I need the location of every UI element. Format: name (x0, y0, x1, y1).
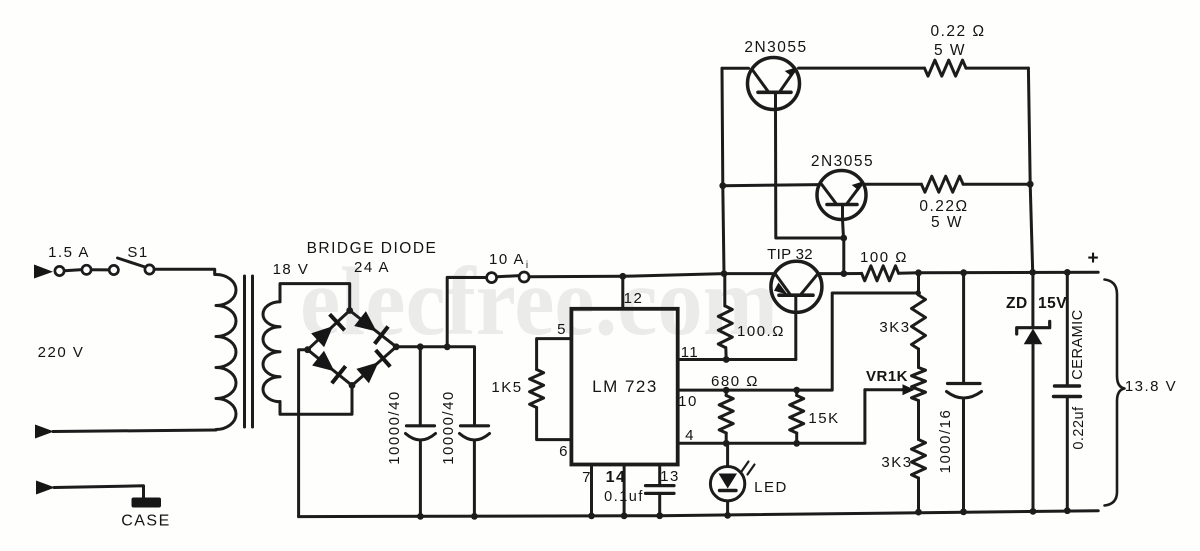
bridge diode D2 (354, 311, 388, 344)
wire pin 4 (678, 390, 865, 444)
bridge diamond wires (308, 311, 397, 386)
svg-text:12: 12 (624, 290, 644, 307)
svg-text:10000/40: 10000/40 (386, 390, 403, 465)
AC input terminal bottom (35, 425, 54, 439)
pin label 6 (559, 443, 569, 460)
svg-text:BRIDGE DIODE: BRIDGE DIODE (307, 240, 438, 257)
svg-text:2N3055: 2N3055 (811, 153, 874, 170)
junction gnd zener (1030, 508, 1037, 515)
label CERAMIC (1070, 309, 1086, 379)
wire bridge positive rail (396, 347, 474, 426)
wire 1K5 to pin 6 (537, 408, 572, 440)
pin label 13 (660, 468, 680, 485)
wire bottom input to transformer (53, 430, 216, 432)
junction gnd C1 (417, 513, 424, 520)
resistor 680ohm (719, 390, 733, 443)
wire rail TIP32 to 100ohm (844, 272, 862, 275)
svg-text:13.8 V: 13.8 V (1125, 378, 1177, 395)
wire TIP32 base (794, 312, 797, 360)
pin label 5 (557, 321, 567, 338)
junction out cap1000 (960, 269, 967, 276)
junction gnd cap1000 (960, 508, 967, 515)
svg-text:CASE: CASE (121, 513, 171, 530)
label 10 A (489, 251, 528, 271)
junction out zener (1029, 269, 1036, 276)
wire riser to 10A fuse (447, 277, 486, 346)
wire pin 7 (590, 465, 593, 516)
svg-text:11: 11 (681, 344, 700, 361)
label 10000/40 first (386, 390, 403, 465)
label 10000/40 second (440, 390, 457, 465)
label plus (1087, 248, 1098, 269)
label LM 723 (592, 377, 658, 396)
resistor R1 0.22ohm 5W (925, 60, 967, 76)
potentiometer VR1K (912, 368, 926, 401)
resistor 3K3 lower (912, 401, 926, 513)
wire R2 to right rail (963, 183, 1030, 186)
junction gnd ceramic (1064, 507, 1071, 514)
junction gnd pin13 (656, 512, 663, 519)
LED D5 (710, 443, 744, 515)
transistor Q2 2N3055 (817, 171, 866, 220)
svg-text:1.5 A: 1.5 A (48, 244, 90, 261)
label R1 0.22 (930, 23, 985, 40)
wire pin 10 (678, 293, 918, 390)
junction 680 top (723, 387, 730, 394)
svg-text:5 W: 5 W (931, 214, 963, 231)
label R2 0.22 (919, 198, 968, 215)
label 2N3055 Q1 (744, 39, 807, 56)
junction pin10 divider (915, 290, 921, 296)
junction gnd C2 (471, 513, 478, 520)
junction out 3K3 (915, 269, 922, 276)
junction Q2 emitter rail (1027, 181, 1034, 188)
svg-text:3K3: 3K3 (881, 454, 912, 471)
junction gnd pin14 (621, 512, 628, 519)
bridge diode D3 (312, 351, 346, 384)
junction 680 bottom (723, 440, 730, 447)
wire Q2 base drop (843, 220, 844, 239)
pin label 12 (624, 290, 644, 307)
wire base link (776, 109, 844, 274)
label CASE (121, 513, 171, 530)
svg-text:15K: 15K (808, 410, 839, 427)
svg-text:220 V: 220 V (38, 344, 85, 361)
label LED (754, 479, 788, 496)
svg-text:1000/16: 1000/16 (937, 409, 954, 474)
label TIP 32 (767, 246, 813, 263)
svg-text:100.Ω: 100.Ω (737, 323, 785, 340)
pin label 7 (582, 469, 592, 486)
junction gnd 3K3 (915, 509, 922, 516)
wire Q1 collector (722, 67, 749, 70)
capacitor C2 10000/40 (460, 426, 490, 517)
resistor R2 0.22ohm 5W (921, 176, 963, 192)
wire secondary top (280, 284, 350, 311)
resistor 3K3 upper (912, 273, 926, 368)
fuse F2 10A (487, 272, 529, 283)
junction 100ohm pin11 (723, 356, 730, 363)
svg-text:ZD: ZD (1006, 295, 1028, 312)
VR1K wiper arrow (865, 384, 915, 395)
wire pin 14 (623, 465, 626, 516)
label 3K3 lower (881, 454, 912, 471)
wire secondary bottom (280, 385, 352, 414)
wire pin 13 top (658, 465, 661, 486)
capacitor 0.1uf (646, 486, 675, 516)
svg-text:i: i (526, 260, 528, 271)
svg-text:10 A: 10 A (489, 251, 525, 268)
label 680 ohm (711, 373, 759, 390)
label 2N3055 Q2 (811, 153, 874, 170)
wire Q1 emitter lead (799, 67, 925, 70)
resistor 1K5 (530, 370, 544, 408)
svg-text:15V: 15V (1038, 295, 1067, 312)
junction gnd pin7 (588, 513, 595, 520)
label R1 5W (934, 42, 966, 59)
label VR1K (866, 368, 908, 385)
label ZD 15V (1006, 295, 1067, 312)
junction base-net rail (840, 270, 847, 277)
junction 15K bottom (793, 440, 800, 447)
svg-text:+: + (1087, 248, 1098, 269)
svg-text:LM 723: LM 723 (592, 377, 658, 396)
label 1.5 A (48, 244, 90, 261)
junction pin12 rail (619, 273, 626, 280)
svg-text:18 V: 18 V (273, 261, 310, 278)
capacitor C1 10000/40 (406, 426, 436, 517)
svg-text:0.22uf: 0.22uf (1071, 406, 1087, 450)
junction collector riser rail (721, 270, 728, 277)
label 18 V (273, 261, 310, 278)
transistor Q3 TIP32 (771, 261, 822, 312)
label 100 ohm horizontal (860, 249, 908, 266)
svg-text:0.22 Ω: 0.22 Ω (930, 23, 985, 40)
transformer core (245, 276, 253, 427)
pin label 11 (681, 344, 700, 361)
svg-text:24 A: 24 A (354, 259, 390, 276)
label BRIDGE DIODE (307, 240, 438, 257)
resistor 100ohm horizontal (862, 266, 899, 281)
svg-text:VR1K: VR1K (866, 368, 908, 385)
label 13.8 V (1125, 378, 1177, 395)
wire pin 12 (621, 276, 624, 309)
transistor Q1 2N3055 (748, 58, 800, 110)
chassis CASE symbol (132, 498, 162, 508)
svg-text:LED: LED (754, 479, 788, 496)
label 100 ohm vertical (737, 323, 785, 340)
wire case (54, 486, 144, 499)
label 3K3 upper (879, 319, 910, 336)
wire pin 11 (678, 358, 796, 361)
svg-text:13: 13 (660, 468, 680, 485)
label R2 5W (931, 214, 963, 231)
transformer T1 secondary (263, 302, 280, 402)
IC U1 LM723 box (571, 309, 677, 465)
label 220 V (38, 344, 85, 361)
svg-text:7: 7 (582, 469, 592, 486)
pin label 14 (606, 469, 627, 486)
svg-text:0.22Ω: 0.22Ω (919, 198, 968, 215)
bridge corner junctions (304, 307, 399, 389)
capacitor 1000/16 (947, 273, 982, 512)
svg-text:10000/40: 10000/40 (440, 390, 457, 465)
junction Q2 collector riser (719, 182, 726, 189)
label 0.22uf (1071, 406, 1087, 450)
label 0.1uf (604, 489, 644, 505)
svg-text:S1: S1 (127, 244, 148, 261)
wire switch to transformer (154, 269, 215, 274)
wire Q2 emitter lead (865, 183, 922, 186)
zener diode ZD 15V (1017, 272, 1050, 511)
label 1000/16 (937, 409, 954, 474)
AC input terminal top (34, 265, 53, 279)
wire V+ rail to TIP32 (529, 274, 772, 277)
junction riser (444, 343, 451, 350)
label 15K (808, 410, 839, 427)
wire bridge negative to ground rail (299, 350, 308, 517)
svg-text:1K5: 1K5 (491, 379, 522, 396)
wire R1 to right rail (966, 67, 1028, 70)
wire cap C1 top lead (419, 347, 422, 426)
right rail (1028, 68, 1032, 272)
wire Q2 collector (723, 185, 819, 186)
svg-text:5 W: 5 W (934, 42, 966, 59)
wire collector riser (722, 68, 724, 273)
watermark (300, 248, 778, 356)
wire output rail (899, 271, 1099, 275)
svg-text:10: 10 (678, 393, 698, 410)
ground rail (299, 511, 1099, 517)
fuse F1 1.5A (55, 265, 119, 275)
pin label 10 (678, 393, 698, 410)
svg-text:100 Ω: 100 Ω (860, 249, 908, 266)
svg-text:680 Ω: 680 Ω (711, 373, 759, 390)
svg-text:4: 4 (685, 427, 695, 444)
transformer T1 primary (216, 275, 236, 430)
svg-text:CERAMIC: CERAMIC (1070, 309, 1086, 379)
resistor 100ohm vertical (718, 274, 732, 360)
bridge diode D4 (356, 350, 390, 383)
svg-text:14: 14 (606, 469, 627, 486)
svg-text:2N3055: 2N3055 (744, 39, 807, 56)
junction base link (840, 235, 847, 242)
CASE terminal (36, 481, 55, 495)
label 1K5 (491, 379, 522, 396)
junction 15K top (793, 387, 800, 394)
svg-text:0.1uf: 0.1uf (604, 489, 644, 505)
wire TIP32 collector to rail (820, 272, 844, 275)
wire pin 5 (537, 339, 572, 370)
switch S1 (118, 258, 155, 274)
junction C1 top (417, 343, 424, 350)
svg-text:6: 6 (559, 443, 569, 460)
LED arrows (742, 462, 755, 475)
pin label 4 (685, 427, 695, 444)
junction gnd LED (724, 512, 731, 519)
resistor 15K (790, 390, 804, 443)
label S1 (127, 244, 148, 261)
junction out ceramic (1064, 269, 1071, 276)
svg-text:5: 5 (557, 321, 567, 338)
capacitor ceramic 0.22uf (1054, 272, 1081, 510)
svg-text:3K3: 3K3 (879, 319, 910, 336)
bridge diode D1 (311, 314, 345, 347)
label 24 A (354, 259, 390, 276)
output brace (1105, 280, 1125, 506)
